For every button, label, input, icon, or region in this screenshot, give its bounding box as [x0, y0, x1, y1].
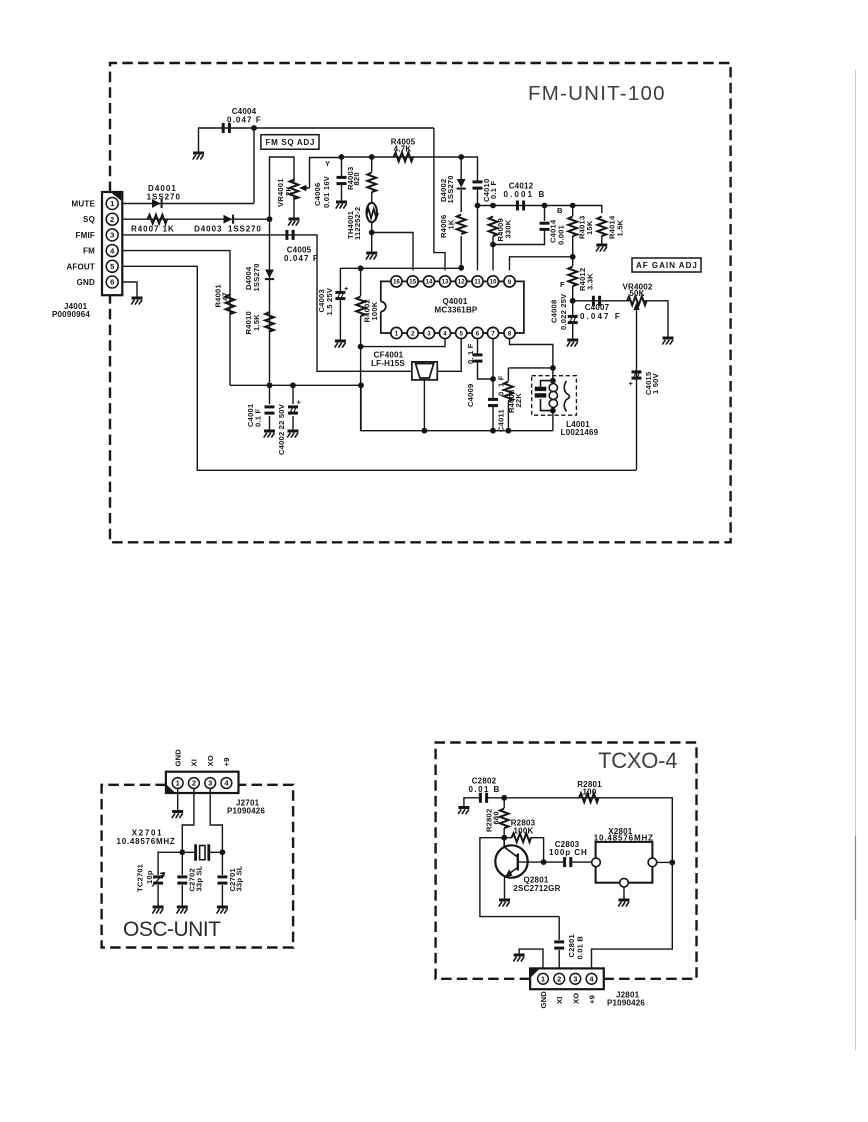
svg-text:15K: 15K [585, 220, 594, 235]
wire pin4 bottom to R4002 [361, 339, 445, 347]
TCXO dashed border [436, 743, 697, 979]
svg-text:2SC2712GR: 2SC2712GR [513, 884, 560, 893]
coil L4001 L0021469 (tank) [532, 376, 577, 416]
svg-text:3: 3 [573, 975, 577, 984]
svg-text:112252-2: 112252-2 [353, 207, 362, 240]
svg-text:TCXO-4: TCXO-4 [598, 748, 678, 773]
FM SQ ADJ label box [261, 135, 319, 150]
svg-text:4.7K: 4.7K [394, 144, 412, 153]
svg-text:10p: 10p [145, 870, 154, 884]
capacitor C2803 100p CH [563, 857, 572, 867]
svg-text:MC3361BP: MC3361BP [435, 306, 478, 315]
crystal X2701 10.48576MHZ [179, 849, 185, 855]
wire GND pin6 [122, 282, 137, 297]
svg-text:13: 13 [442, 279, 449, 286]
resistor R4002 100K [360, 268, 362, 430]
IC pin 16..9 top row [391, 276, 402, 287]
svg-text:XO: XO [571, 993, 580, 1004]
svg-text:AF GAIN ADJ: AF GAIN ADJ [636, 261, 697, 270]
node base [501, 835, 507, 841]
capacitor C4003 1.5 25V [339, 268, 341, 340]
svg-text:LF-H15S: LF-H15S [371, 359, 405, 368]
wire pin3 XO [210, 788, 222, 852]
svg-text:+9: +9 [222, 757, 231, 766]
svg-text:5: 5 [459, 331, 463, 338]
connector J2801 [530, 968, 645, 1008]
ground (C2802 input) [458, 808, 469, 815]
svg-text:100K: 100K [514, 827, 534, 836]
svg-text:0. 1 F: 0. 1 F [466, 343, 475, 364]
node SQ junction [267, 216, 273, 222]
svg-text:1: 1 [176, 779, 180, 788]
svg-text:1: 1 [110, 199, 114, 208]
svg-text:3: 3 [208, 779, 212, 788]
svg-text:1SS270: 1SS270 [446, 175, 455, 203]
svg-text:1SS270: 1SS270 [147, 193, 181, 202]
svg-text:1.5 25V: 1.5 25V [325, 287, 334, 315]
resistor R4001 47 [226, 295, 235, 315]
svg-text:0.01 B: 0.01 B [469, 785, 500, 794]
svg-text:C4007: C4007 [585, 303, 610, 312]
svg-text:1: 1 [541, 975, 545, 984]
svg-text:680: 680 [492, 811, 501, 824]
node base rail junction [501, 795, 507, 801]
capacitor C4002 22 50V [292, 385, 294, 430]
capacitor C4010 0.1F [473, 180, 483, 189]
ground (pin6) [131, 298, 142, 305]
svg-text:1 50V: 1 50V [651, 372, 660, 394]
potentiometer VR4002 50K [627, 296, 647, 305]
svg-text:OSC-UNIT: OSC-UNIT [123, 918, 221, 941]
svg-text:820: 820 [352, 172, 361, 185]
capacitor C4014 0.001 B [493, 206, 545, 245]
svg-text:16: 16 [393, 279, 400, 286]
thermistor TH4001 112252-2 [367, 203, 379, 222]
svg-text:10.48576MHZ: 10.48576MHZ [594, 833, 654, 842]
svg-text:P1090426: P1090426 [607, 999, 645, 1008]
svg-text:0.1 F: 0.1 F [489, 181, 498, 199]
svg-text:D4003: D4003 [194, 224, 222, 233]
svg-text:4: 4 [443, 331, 447, 338]
svg-text:47: 47 [221, 292, 230, 301]
wire pin1 gnd [519, 949, 543, 973]
diode D4002 + resistor R4006 chain [460, 157, 462, 270]
svg-text:C4002 22 50V: C4002 22 50V [277, 403, 286, 455]
transistor Q2801 2SC2712GR [495, 838, 543, 899]
wire base feedback left [480, 838, 559, 917]
wire pin2 XI [182, 788, 194, 852]
resistor R2803 100K [512, 833, 532, 842]
svg-text:XI: XI [555, 996, 564, 1004]
potentiometer VR4001 2K [290, 180, 299, 200]
svg-text:0.01 B: 0.01 B [576, 936, 585, 960]
svg-text:P1090426: P1090426 [227, 807, 265, 816]
wire pin9 branch [510, 257, 573, 271]
svg-text:2K: 2K [284, 186, 293, 196]
svg-text:100p CH: 100p CH [549, 848, 587, 857]
svg-text:0.001 B: 0.001 B [504, 190, 545, 199]
svg-text:FMIF: FMIF [76, 231, 95, 240]
node C4004/R4005 junction [251, 125, 257, 131]
svg-text:100: 100 [583, 788, 597, 797]
svg-text:TC2701: TC2701 [136, 863, 145, 892]
svg-text:1SS270: 1SS270 [252, 263, 261, 291]
svg-text:AFOUT: AFOUT [66, 262, 95, 271]
svg-text:10: 10 [490, 279, 497, 286]
svg-text:R4007 1K: R4007 1K [131, 225, 174, 234]
wire MUTE pin1 [122, 128, 254, 204]
svg-text:Y: Y [325, 159, 330, 168]
FM unit dashed border [110, 63, 731, 542]
capacitor C2702 33p SL [181, 852, 183, 906]
wire SQ down chain [269, 219, 271, 385]
wire FMIF pin3 [122, 235, 412, 371]
wire SQ pin2 [122, 218, 269, 220]
svg-text:330K: 330K [503, 219, 512, 238]
resistor R2802 680 [503, 798, 505, 808]
svg-text:1.5K: 1.5K [616, 219, 625, 236]
capacitor C4012 0.001 B [516, 201, 525, 211]
svg-text:9: 9 [508, 279, 512, 286]
svg-text:0.047 F: 0.047 F [284, 254, 318, 263]
capacitor C4015 1 50V [632, 370, 642, 379]
svg-text:11: 11 [474, 279, 481, 286]
svg-text:+: + [297, 398, 302, 407]
svg-text:1SS270: 1SS270 [228, 224, 261, 233]
svg-text:33p SL: 33p SL [194, 865, 203, 891]
svg-text:+: + [629, 379, 634, 388]
svg-text:XI: XI [190, 759, 199, 767]
wire pin8 to L4001 [510, 339, 553, 381]
svg-text:MUTE: MUTE [72, 200, 96, 209]
svg-text:14: 14 [426, 279, 433, 286]
svg-text:C4009: C4009 [466, 384, 475, 407]
wire ground rail y=385 [230, 384, 361, 386]
svg-text:6: 6 [476, 331, 480, 338]
svg-text:5: 5 [110, 262, 114, 271]
svg-text:1K: 1K [447, 219, 456, 229]
wire AFOUT pin5 [122, 266, 636, 470]
svg-text:7: 7 [491, 331, 495, 338]
resistor R4014 1.5K [597, 217, 606, 237]
IC pin 1..8 bottom row [391, 327, 402, 338]
svg-text:FM: FM [83, 247, 95, 256]
diode D4004 [265, 270, 274, 281]
svg-text:FM SQ ADJ: FM SQ ADJ [266, 138, 315, 147]
svg-text:3: 3 [427, 331, 431, 338]
capacitor C2701 33p SL [221, 852, 223, 906]
svg-text:6: 6 [110, 278, 114, 287]
svg-text:C4008: C4008 [550, 300, 559, 323]
op-amp U1 : IC Q4001 MC3361BP body [381, 281, 524, 333]
svg-text:+: + [344, 284, 349, 293]
svg-text:GND: GND [539, 991, 548, 1009]
svg-text:L0021469: L0021469 [561, 428, 599, 437]
svg-text:33p SL: 33p SL [235, 865, 244, 891]
svg-text:100K: 100K [370, 301, 379, 320]
diode D4001 [152, 199, 163, 208]
wire pin5 bottom to CF4001 [437, 339, 461, 372]
resistor R4005 4.7K [394, 153, 414, 162]
wire SQ to VR4001 top [270, 157, 295, 219]
capacitor C4006 0.01 16V [341, 157, 343, 201]
capacitor C4008 0.022 25V [572, 301, 574, 339]
svg-text:0.047 F: 0.047 F [227, 116, 261, 125]
ground (C4004) [193, 153, 204, 160]
svg-text:FM-UNIT-100: FM-UNIT-100 [528, 82, 665, 105]
svg-text:GND: GND [77, 278, 95, 287]
capacitor C4001 0.1F [269, 385, 271, 430]
scan artifact line right margin [855, 70, 857, 1050]
capacitor C2802 0.01 B [464, 798, 504, 808]
wire pin1 to ground [177, 788, 179, 810]
resistor R4003 820 [371, 157, 373, 203]
crystal X2801 10.48576MHZ [596, 842, 653, 883]
resistor R4012 3.3K [572, 257, 574, 301]
wire +9 rail [504, 798, 672, 973]
resistor R4010 1.5K [265, 312, 274, 332]
connector J4001 [52, 192, 122, 319]
svg-text:F: F [560, 280, 565, 289]
wire rail y=205.5 [478, 206, 602, 214]
diode D4003 [224, 215, 235, 224]
svg-text:2: 2 [110, 215, 114, 224]
AF GAIN ADJ label box [632, 258, 701, 272]
svg-text:22K: 22K [514, 393, 523, 408]
svg-text:GND: GND [174, 749, 183, 767]
wire TH4001 bottom to pin15 and ground [372, 223, 413, 271]
resistor R4009 330K [489, 217, 498, 237]
svg-text:C4011: C4011 [497, 408, 506, 432]
svg-text:P0090964: P0090964 [52, 310, 90, 319]
resistor R4013 15K [572, 206, 574, 257]
svg-text:0.047 F: 0.047 F [580, 312, 620, 321]
svg-text:0.001: 0.001 [557, 224, 566, 245]
svg-text:2: 2 [411, 331, 415, 338]
svg-text:0.022 25V: 0.022 25V [559, 293, 568, 330]
svg-text:10.48576MHZ: 10.48576MHZ [117, 837, 176, 846]
capacitor C4007 0.047F [573, 300, 630, 302]
capacitor C4005 [285, 230, 294, 240]
connector J2701 [166, 749, 266, 816]
capacitor C4004 [199, 128, 446, 270]
wire FM pin4 [122, 251, 230, 386]
OSC unit dashed border [102, 785, 294, 948]
trimmer TC2701 10p [158, 852, 182, 906]
svg-text:C4006: C4006 [313, 183, 322, 206]
svg-text:2: 2 [192, 779, 196, 788]
ceramic filter CF4001 LF-H15S [412, 362, 437, 380]
resistor R4007 [148, 215, 168, 224]
svg-text:8: 8 [508, 331, 512, 338]
svg-text:12: 12 [458, 279, 465, 286]
svg-text:2: 2 [557, 975, 561, 984]
wire rail y=268.3 [340, 267, 461, 269]
svg-text:0. 1 F: 0. 1 F [497, 375, 506, 396]
wire rail y=157 [342, 157, 478, 181]
svg-text:1: 1 [395, 331, 399, 338]
capacitor C4009 0.1F on pin6 [478, 339, 494, 379]
resistor R2801 100 [579, 793, 599, 802]
capacitor C2801 0.01 B [558, 917, 560, 973]
wire bottom rail y=430.7 [361, 385, 553, 430]
svg-text:X2701: X2701 [132, 829, 162, 838]
svg-text:0.1 F: 0.1 F [254, 409, 263, 427]
svg-text:SQ: SQ [83, 215, 95, 224]
svg-text:XO: XO [206, 755, 215, 766]
svg-text:50K: 50K [629, 289, 644, 298]
svg-text:+9: +9 [588, 995, 597, 1004]
resistor R4008 22K [508, 368, 553, 431]
svg-text:3: 3 [110, 231, 114, 240]
wire pin7 / capacitor C4011 0.1F [492, 339, 494, 431]
svg-text:15: 15 [409, 279, 416, 286]
svg-text:1.5K: 1.5K [252, 314, 261, 331]
svg-text:3.3K: 3.3K [586, 273, 595, 290]
svg-text:B: B [557, 206, 563, 215]
svg-text:0.01 16V: 0.01 16V [322, 175, 331, 208]
node C4007/C4008 [570, 298, 576, 304]
